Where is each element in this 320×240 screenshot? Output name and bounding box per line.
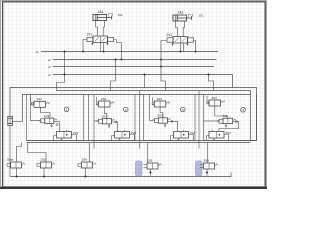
wire cylinder 2A1 right port to valve 2V1 [183,21,184,37]
exhaust stub below 2V3 [108,124,110,128]
wire service unit output right [12,121,22,123]
supply band line B1 [10,88,257,141]
svg-text:2S1: 2S1 [199,14,204,18]
throttle circle on g1 output [56,124,58,126]
wire valve 2V1 port to line L1 [183,43,185,52]
wire valve 1S1 to supply bus [43,168,45,177]
svg-text:Start: Start [7,158,14,162]
wire top valve g3 to middle valve [160,107,163,118]
valve 2S2b (3/2 push button) [78,162,96,168]
wire valve 1S1 output up to group band [28,143,47,163]
distance flag blue 2 [196,161,203,176]
junction on L2 [82,51,84,53]
junction on L1 [180,51,182,53]
cascade wire at x144 from L4 to band [144,75,146,88]
svg-text:2S4: 2S4 [204,159,210,163]
valve 3V3 3/2 pilot [152,118,170,123]
valve 1S5 (3/2 roller) [144,163,162,169]
wire g1 supply to middle valve pilot [31,95,39,121]
node circle 2 [124,107,129,112]
svg-text:3: 3 [182,108,184,112]
wire top valve g4 to middle valve [215,106,228,118]
svg-text:1S2: 1S2 [118,13,123,17]
wire top valve g2 to middle valve [104,107,107,119]
junction dots on cascade wire [64,51,66,53]
wire start valve output up [17,143,22,163]
group 4 frame wire [204,95,257,141]
distance rule for 1A1 [109,13,113,16]
valve 2V2 memory [112,130,135,141]
svg-text:1V2: 1V2 [73,131,79,135]
bottom supply bus [10,173,231,177]
cascade select wire group 1 from L1 [64,52,66,75]
group 1 frame wire [27,95,84,141]
wire valve 2S4 to supply bus [206,169,208,177]
junction on L3 [160,59,162,61]
cylinder 2A1 [173,15,192,21]
wire g3 supply to middle valve pilot [150,95,153,121]
svg-text:2S3: 2S3 [212,96,218,100]
bus line L3 [53,66,214,68]
group 3 frame wire [144,95,196,141]
wire middle valve g2 output to memory valve [111,122,117,132]
extra cascade vertical between group2 and group3 [139,91,141,149]
svg-text:1A1: 1A1 [98,10,104,14]
wire 1V1 left pilot down to line L2 [83,40,87,52]
wire middle valve g1 output to memory valve [54,122,60,132]
extra cascade vertical between group1 and group2 [93,95,95,149]
svg-text:2S2: 2S2 [101,97,107,101]
cascade staircase to group 1 [57,75,65,91]
supply band line B3 [23,95,251,122]
valve 1S1 (3/2 push button) [37,162,55,168]
band bottom line 2 [27,142,251,144]
valve 3V2 memory [171,130,194,141]
wire valve 1S5 to supply bus [150,169,152,177]
extra cascade vertical between group3 and group4 [198,91,200,149]
wire middle valve g3 output to memory valve [167,121,177,131]
valve 1V1 5/2 [87,36,114,43]
supply band line B2 [57,91,251,141]
wire 2V1 right pilot down to line L1 [194,41,196,52]
cascade staircase to group 4 [209,75,214,91]
wire cylinder 1A1 right port to valve 1V1 [103,21,104,37]
bus line L4 [53,75,233,88]
exhaust silencers of 2V1 [172,44,189,47]
wire g4 supply to middle valve pilot [204,120,217,122]
throttle circle on g2 output [115,121,117,123]
group 2 frame wire [89,95,136,141]
node circle 1 [64,107,69,112]
wire valve 2V1 supply to line L1 [180,43,182,52]
junction on L1 [195,51,197,53]
exhaust stub below 1V3 [51,124,53,128]
svg-text:2V1: 2V1 [167,33,173,37]
svg-text:4V2: 4V2 [225,131,231,135]
bus line L1 [41,51,218,53]
exhaust stub below 4V3 [225,124,227,128]
wire valve up to group band [89,143,91,163]
band bottom line 1 [27,140,257,142]
node circle 3 [181,107,186,112]
exhaust stub below 3V3 [164,123,166,127]
cascade staircase to group 2 [111,60,116,91]
svg-text:1S2: 1S2 [37,97,43,101]
group 1 : limit valve 1S2 (3/2 roller) [31,97,50,107]
svg-text:1S4: 1S4 [82,158,88,162]
wire top valve g1 to middle valve [41,107,51,118]
svg-text:2: 2 [125,108,127,112]
group 4 : limit valve 2S3 (3/2 roller) [207,96,225,106]
svg-text:1V3: 1V3 [44,114,50,118]
wire start valve to supply bus [16,168,18,177]
svg-text:1V1: 1V1 [87,33,93,37]
wire valve to supply bus [85,168,87,177]
node circle 4 [241,108,246,113]
svg-text:2V3: 2V3 [102,114,108,118]
svg-text:1: 1 [66,108,68,112]
svg-text:2V2: 2V2 [131,131,137,135]
svg-text:4V3: 4V3 [222,114,228,118]
group 3 : limit valve 1S3 (3/2 roller) [152,97,170,107]
throttle circle on g3 output [171,120,173,122]
valve Start (3/2 push button) [7,162,25,168]
wire valve 1V1 port to line L1 [103,43,105,52]
svg-text:2A1: 2A1 [178,11,184,15]
svg-text:3V3: 3V3 [158,114,164,118]
valve 2S4 (3/2 roller) [200,163,218,169]
wire service unit down to supply bus [9,126,11,177]
throttle circle on g4 output [235,121,237,123]
wire valve 1V1 supply to line L1 [100,43,102,52]
wire cylinder 2A1 left port to valve 2V1 [176,21,178,37]
wire cylinder 1A1 left port to valve 1V1 [96,21,98,37]
svg-text:1S1: 1S1 [41,158,47,162]
wire middle valve g4 output to memory valve [219,122,239,132]
wire riser through valve 1S5 [147,143,149,164]
wire 2V1 left pilot down to line L3 [161,41,167,91]
bus line L2 [53,59,217,61]
group 2 : limit valve 2S2 (3/2 roller) [96,97,114,107]
valve 2V3 3/2 pilot [96,119,114,124]
svg-text:3V2: 3V2 [190,131,196,135]
air service unit [8,116,13,125]
junction on L1 [103,51,105,53]
svg-text:1S5: 1S5 [147,159,153,163]
valve 1V3 3/2 pilot [38,118,56,123]
svg-text:4: 4 [242,108,244,112]
distance flag blue 1 [136,161,143,176]
cylinder 1A1 [93,15,112,21]
distance rule for 2A1 [189,14,193,17]
exhaust silencers of 1V1 [92,43,109,46]
junction on L2 [121,59,123,61]
valve 1V2 memory [54,130,77,141]
valve 4V2 memory [207,130,229,141]
wire g2 supply to middle valve pilot [94,120,96,122]
wire 1V1 right pilot down to line L2 [114,40,122,60]
valve 4V3 3/2 pilot [217,118,236,123]
svg-text:1S3: 1S3 [157,97,163,101]
valve 2V1 5/2 [167,37,194,44]
wire riser through valve 2S4 [207,143,209,164]
